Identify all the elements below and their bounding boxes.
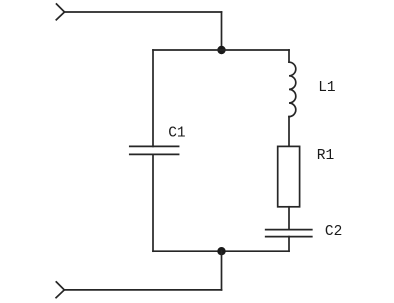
wire top bus [153,49,289,51]
svg-text:C1: C1 [168,125,185,141]
node junction dot (top) [217,46,225,54]
port P2 (bottom-left terminal) [56,282,64,298]
svg-text:C2: C2 [325,224,342,240]
wire down into node [221,12,223,50]
capacitor C2 [266,230,312,237]
wire L1 to R1 [288,117,290,147]
svg-text:L1: L1 [318,80,335,96]
capacitor C1 [130,146,179,154]
wire C2 down [288,237,290,252]
node junction dot (bottom) [217,247,225,255]
wire left branch upper [152,50,154,146]
svg-text:R1: R1 [317,148,334,164]
wire top from P1 to corner [65,11,222,13]
wire bottom to P2 [64,289,221,291]
wire bottom bus [153,250,289,252]
wire R1 to C2 [288,207,290,230]
wire left branch lower [152,154,154,251]
port P1 (top-left input terminal) [56,4,64,20]
wire down from bottom node [221,251,223,290]
wire right branch top [288,50,290,62]
inductor L1 [289,62,296,116]
resistor R1 [278,146,300,206]
